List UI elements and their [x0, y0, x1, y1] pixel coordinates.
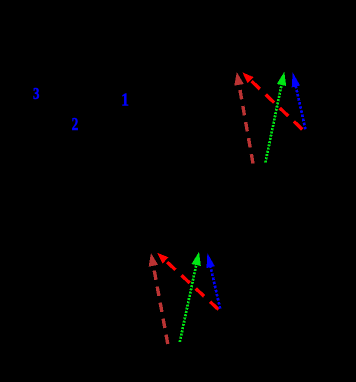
vector Bnet top (green dotted)	[265, 72, 286, 163]
vector B3 bottom (brown dashed)	[149, 253, 168, 344]
vector B2 bottom (blue dashed)	[207, 253, 221, 309]
vector B3 top (brown dashed)	[234, 72, 253, 164]
vector B2 top (blue dashed)	[292, 72, 306, 129]
vector B1 bottom (red dashed)	[157, 253, 219, 310]
vector Bnet bottom (green dotted)	[180, 252, 201, 342]
svg-text:2: 2	[72, 115, 79, 134]
svg-text:1: 1	[121, 90, 129, 110]
vector B1 top (red dashed)	[242, 72, 302, 129]
svg-text:3: 3	[33, 85, 39, 103]
